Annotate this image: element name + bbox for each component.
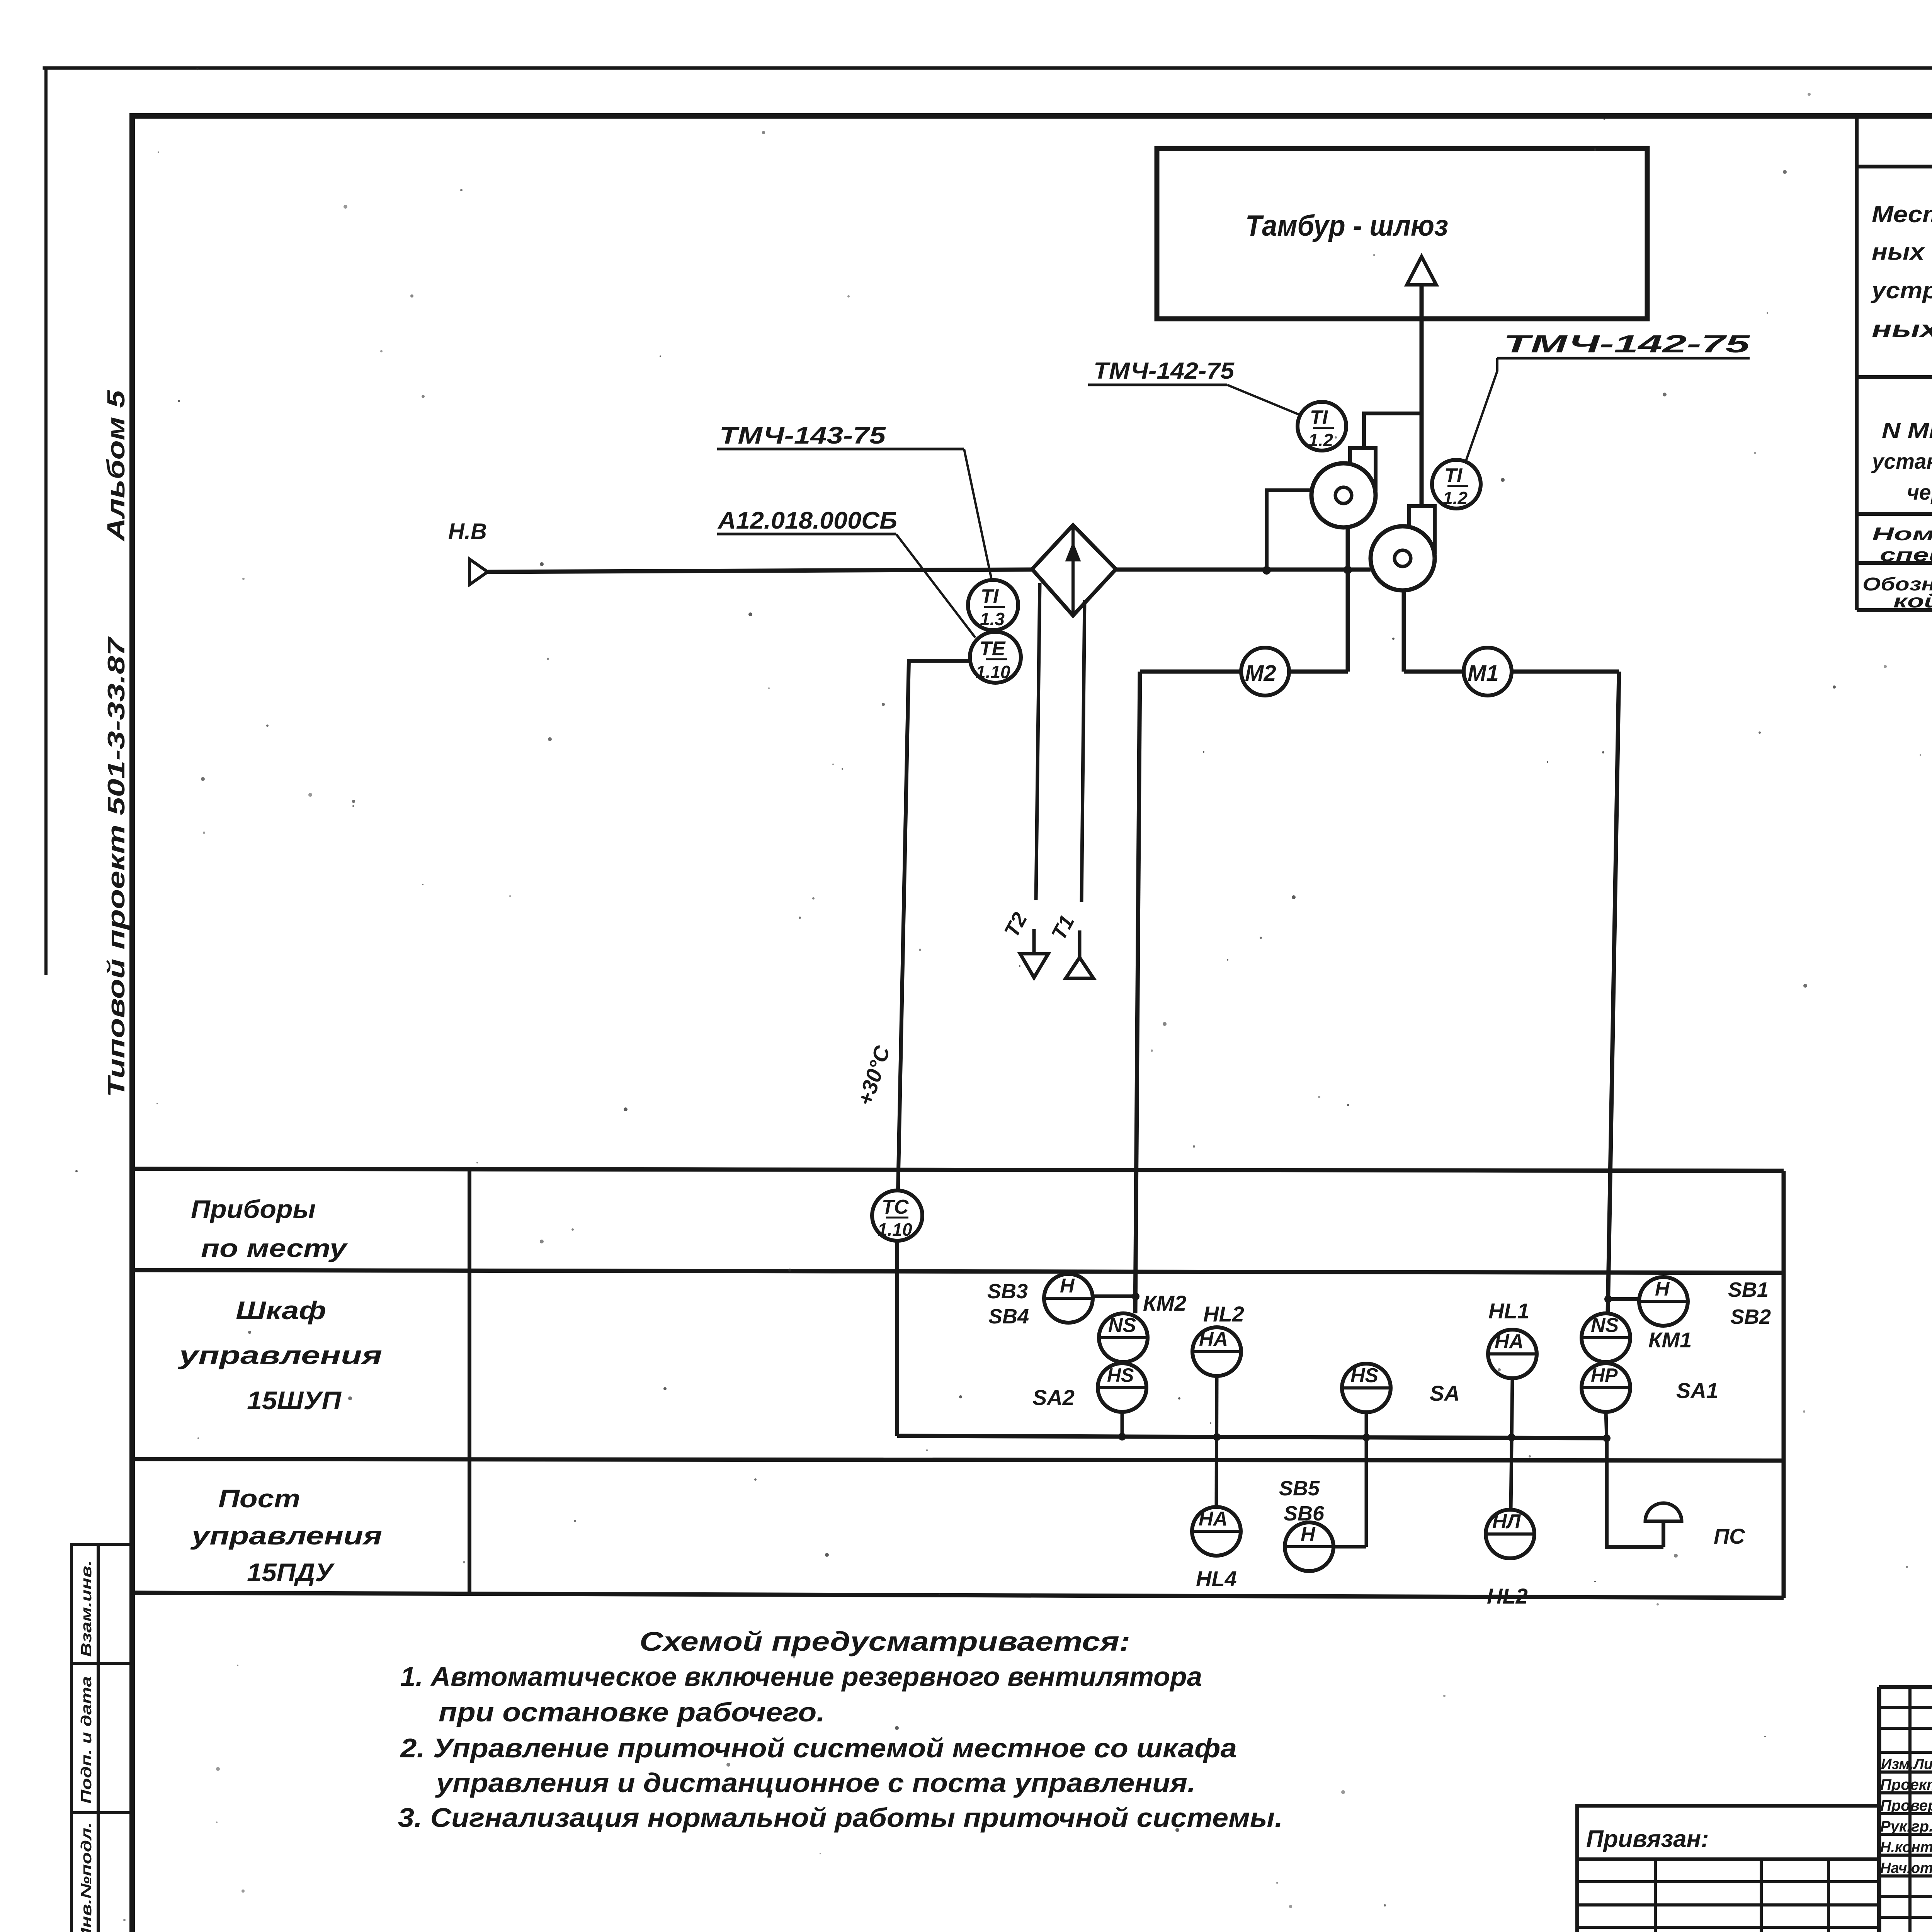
svg-text:ТМЧ-142-75: ТМЧ-142-75	[1094, 358, 1235, 384]
svg-text:по месту: по месту	[201, 1234, 348, 1262]
svg-text:NS: NS	[1108, 1314, 1136, 1337]
switch HS (SA)	[1342, 1364, 1391, 1412]
lamp HL (HL2 bottom)	[1486, 1510, 1534, 1558]
node: riser junction	[1262, 566, 1271, 575]
svg-text:Тамбур - шлюз: Тамбур - шлюз	[1245, 209, 1448, 242]
svg-text:ных приборов, отборных: ных приборов, отборных	[1872, 239, 1932, 265]
svg-text:15ПДУ: 15ПДУ	[247, 1558, 335, 1587]
svg-text:Пост: Пост	[218, 1484, 300, 1513]
svg-text:НS: НS	[1107, 1364, 1134, 1386]
svg-text:Схемой предусматривается:: Схемой предусматривается:	[639, 1626, 1130, 1656]
svg-text:1. Автоматическое включение ре: 1. Автоматическое включение резервного в…	[400, 1662, 1202, 1692]
svg-text:1.10: 1.10	[976, 662, 1010, 682]
svg-text:ПС: ПС	[1714, 1524, 1745, 1548]
lamp HA (HL1)	[1488, 1330, 1537, 1378]
svg-text:НL1: НL1	[1488, 1299, 1529, 1323]
instrument TC 1.10	[872, 1190, 922, 1241]
svg-text:при остановке рабочего.: при остановке рабочего.	[439, 1697, 825, 1727]
lamp HA (HL4)	[1192, 1507, 1241, 1556]
svg-text:ТМЧ-143-75: ТМЧ-143-75	[719, 422, 886, 449]
svg-text:Альбом 5: Альбом 5	[102, 389, 130, 542]
button H (SB5 SB6)	[1285, 1522, 1333, 1571]
lamp HA (HL2)	[1192, 1327, 1241, 1376]
svg-text:КМ1: КМ1	[1648, 1328, 1692, 1352]
svg-text:Рук.гр.: Рук.гр.	[1880, 1818, 1932, 1835]
svg-text:Н: Н	[1655, 1278, 1670, 1300]
svg-text:SВ3: SВ3	[987, 1280, 1028, 1303]
fan 1 (upper)	[1311, 448, 1376, 527]
air heater diamond	[1032, 525, 1116, 616]
svg-text:Н.В: Н.В	[448, 519, 487, 544]
svg-text:чертежа: чертежа	[1907, 480, 1932, 504]
svg-text:ТI: ТI	[1444, 464, 1463, 487]
svg-text:15ШУП: 15ШУП	[247, 1386, 342, 1415]
svg-text:NS: NS	[1591, 1314, 1619, 1337]
svg-text:НЛ: НЛ	[1492, 1510, 1521, 1533]
button H (SB1 SB2)	[1639, 1277, 1688, 1326]
svg-text:1.3: 1.3	[980, 609, 1005, 629]
svg-text:Изм.Лист: Изм.Лист	[1881, 1756, 1932, 1772]
instrument TI 1.3	[968, 580, 1018, 630]
svg-text:ТI: ТI	[1310, 406, 1328, 429]
svg-text:КМ2: КМ2	[1143, 1291, 1186, 1315]
svg-text:Привязан:: Привязан:	[1586, 1826, 1709, 1852]
svg-text:1.10: 1.10	[878, 1219, 912, 1240]
svg-text:SА: SА	[1430, 1381, 1460, 1405]
svg-text:Шкаф: Шкаф	[236, 1296, 326, 1325]
svg-text:Взам.инв.: Взам.инв.	[78, 1560, 95, 1657]
svg-text:НА: НА	[1495, 1330, 1524, 1353]
wire: SA chain	[1333, 1545, 1366, 1549]
node: fan1 outlet crossing	[1344, 566, 1352, 574]
svg-text:Н: Н	[1060, 1275, 1075, 1297]
wire: fan2 outlet down	[1402, 590, 1406, 672]
wire: M1 branch	[1404, 670, 1619, 674]
svg-text:управления и дистанционное с п: управления и дистанционное с поста управ…	[435, 1768, 1196, 1798]
svg-text:Проект.: Проект.	[1880, 1776, 1932, 1793]
svg-text:1.2: 1.2	[1443, 488, 1468, 508]
svg-text:спецификации: спецификации	[1880, 544, 1932, 565]
svg-text:НL2: НL2	[1203, 1302, 1244, 1326]
contactor NS (KM2)	[1099, 1313, 1148, 1362]
wire: T2 sensor line	[1036, 583, 1040, 900]
svg-text:SВ2: SВ2	[1730, 1305, 1771, 1328]
wire: fan1 outlet down	[1346, 527, 1350, 672]
outer border left	[44, 68, 48, 974]
outer border top	[44, 66, 1932, 70]
svg-text:НА: НА	[1199, 1508, 1228, 1530]
fan 2 (lower)	[1371, 506, 1435, 590]
svg-text:Н: Н	[1301, 1523, 1316, 1546]
motor M1	[1464, 648, 1512, 696]
svg-text:Инв.№: Инв.№	[1584, 1928, 1644, 1932]
instrument TE 1.10	[970, 632, 1021, 683]
supply air arrow into room	[1407, 257, 1436, 507]
tambour-sluice room box	[1157, 148, 1647, 319]
instrument TI 1.2 (right)	[1432, 460, 1481, 509]
svg-text:ТС: ТС	[882, 1196, 909, 1218]
svg-text:Провер.: Провер.	[1880, 1797, 1932, 1814]
wire: fan1 outlet elbow to duct	[1364, 413, 1422, 449]
wire: T1 sensor line	[1082, 600, 1085, 902]
svg-text:Типовой проект 501-3-33.87: Типовой проект 501-3-33.87	[103, 636, 130, 1097]
bell PS	[1662, 1521, 1665, 1547]
cabinet bus wire	[897, 1436, 1607, 1438]
svg-text:устройств и исполнитель-: устройств и исполнитель-	[1871, 277, 1932, 303]
svg-text:Нач.отд.: Нач.отд.	[1880, 1860, 1932, 1876]
agregat table	[1855, 119, 1859, 610]
svg-text:Номер позиции по: Номер позиции по	[1872, 524, 1932, 544]
svg-text:Инв.№подл.: Инв.№подл.	[78, 1822, 95, 1932]
svg-text:ТI: ТI	[981, 585, 999, 608]
svg-text:управления: управления	[178, 1341, 382, 1369]
svg-text:А12.018.000СБ: А12.018.000СБ	[717, 507, 897, 534]
wire: H SB3/SB4 connector	[1093, 1294, 1136, 1298]
svg-text:Подп. и дата: Подп. и дата	[78, 1676, 95, 1804]
wire: to bell PS	[1607, 1438, 1663, 1547]
stamp column boxes	[71, 1544, 98, 1663]
switch HS (SA1)	[1582, 1363, 1630, 1412]
wire: riser to fan1 inlet	[1267, 490, 1311, 570]
svg-text:управления: управления	[190, 1521, 382, 1550]
svg-text:N МВН или: N МВН или	[1882, 418, 1932, 442]
svg-text:SВ4: SВ4	[988, 1305, 1029, 1328]
svg-text:SВ1: SВ1	[1728, 1278, 1769, 1301]
svg-text:SА1: SА1	[1676, 1378, 1718, 1403]
privyazan table	[1577, 1806, 1879, 1932]
button H (SB3 SB4)	[1044, 1274, 1093, 1323]
svg-text:НS: НS	[1350, 1364, 1379, 1387]
svg-text:SВ6: SВ6	[1284, 1502, 1325, 1525]
svg-text:Приборы: Приборы	[191, 1195, 316, 1223]
svg-text:1.2: 1.2	[1308, 430, 1333, 450]
svg-text:НL2: НL2	[1487, 1584, 1528, 1608]
contactor NS (KM1)	[1582, 1313, 1630, 1362]
svg-text:ТЕ: ТЕ	[980, 638, 1006, 660]
rows table lines	[135, 1169, 1784, 1171]
svg-text:ных механизмов: ных механизмов	[1872, 316, 1932, 342]
svg-text:Место установки первич-: Место установки первич-	[1872, 201, 1932, 227]
svg-text:НL4: НL4	[1196, 1566, 1237, 1591]
switch HS (SA2)	[1098, 1363, 1146, 1412]
wire: supply duct line	[488, 570, 1032, 572]
motor M2	[1241, 648, 1289, 696]
wire: KM1 connector	[1608, 1297, 1639, 1301]
svg-text:Н.контр.: Н.контр.	[1880, 1839, 1932, 1855]
svg-text:SА2: SА2	[1032, 1385, 1075, 1410]
svg-text:SВ5: SВ5	[1279, 1477, 1320, 1500]
svg-text:НА: НА	[1199, 1328, 1228, 1350]
svg-text:М2: М2	[1245, 661, 1276, 686]
title block outline	[1879, 1685, 1932, 1689]
svg-text:2. Управление приточной систем: 2. Управление приточной системой местное…	[400, 1733, 1237, 1763]
svg-text:установочного: установочного	[1871, 449, 1932, 473]
svg-text:кой схеме: кой схеме	[1893, 591, 1932, 612]
svg-text:ТМЧ-142-75: ТМЧ-142-75	[1503, 330, 1750, 358]
svg-text:НР: НР	[1591, 1364, 1618, 1386]
instrument TI 1.2 (left)	[1298, 402, 1346, 451]
svg-text:М1: М1	[1468, 661, 1499, 686]
svg-text:3. Сигнализация нормальной раб: 3. Сигнализация нормальной работы приточ…	[398, 1803, 1283, 1833]
wire: TE to cabinet	[898, 661, 970, 1190]
wire: M2 branch	[1140, 670, 1348, 674]
